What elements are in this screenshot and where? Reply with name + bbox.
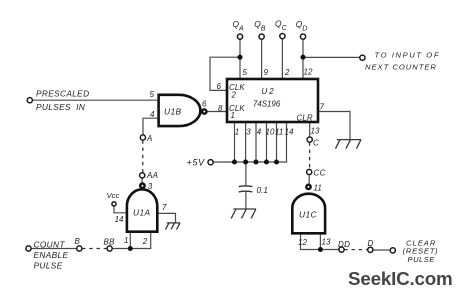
svg-text:SeekIC.com: SeekIC.com bbox=[348, 268, 452, 289]
svg-text:2: 2 bbox=[284, 68, 290, 77]
svg-text:D: D bbox=[302, 26, 307, 33]
svg-text:C: C bbox=[313, 139, 319, 148]
svg-text:DD: DD bbox=[338, 240, 350, 249]
svg-text:CLR: CLR bbox=[297, 113, 313, 122]
svg-text:AA: AA bbox=[146, 171, 158, 180]
svg-text:B: B bbox=[261, 26, 266, 33]
svg-text:U1A: U1A bbox=[133, 208, 151, 218]
svg-text:B: B bbox=[75, 237, 81, 246]
svg-text:2: 2 bbox=[142, 237, 148, 246]
svg-text:11: 11 bbox=[314, 183, 322, 192]
svg-text:COUNT: COUNT bbox=[34, 240, 66, 250]
svg-text:NEXT COUNTER: NEXT COUNTER bbox=[365, 63, 437, 72]
svg-text:PULSE: PULSE bbox=[34, 260, 63, 270]
svg-text:A: A bbox=[238, 26, 244, 33]
svg-text:BB: BB bbox=[104, 237, 116, 246]
svg-text:9: 9 bbox=[264, 68, 269, 77]
svg-text:1: 1 bbox=[124, 236, 128, 245]
svg-text:TO INPUT OF: TO INPUT OF bbox=[375, 51, 441, 60]
svg-text:PULSE: PULSE bbox=[408, 255, 436, 264]
svg-text:14: 14 bbox=[115, 215, 124, 224]
svg-text:D: D bbox=[368, 239, 374, 248]
svg-text:PULSES IN: PULSES IN bbox=[36, 102, 85, 112]
svg-text:3: 3 bbox=[148, 182, 153, 191]
svg-text:74S196: 74S196 bbox=[253, 99, 281, 108]
svg-text:14: 14 bbox=[285, 128, 294, 137]
svg-text:U2: U2 bbox=[262, 87, 276, 96]
svg-text:Vcc: Vcc bbox=[107, 191, 120, 200]
svg-text:4: 4 bbox=[150, 110, 155, 119]
svg-text:A: A bbox=[146, 134, 153, 143]
svg-text:13: 13 bbox=[311, 127, 320, 136]
svg-text:7: 7 bbox=[162, 203, 167, 212]
svg-text:1: 1 bbox=[235, 128, 239, 137]
svg-text:11: 11 bbox=[275, 128, 283, 137]
svg-text:U1C: U1C bbox=[299, 209, 318, 219]
svg-text:4: 4 bbox=[257, 128, 262, 137]
svg-text:7: 7 bbox=[320, 102, 325, 111]
svg-text:5: 5 bbox=[150, 90, 155, 99]
svg-text:U1B: U1B bbox=[164, 106, 182, 116]
svg-text:PRESCALED: PRESCALED bbox=[36, 88, 89, 98]
svg-text:10: 10 bbox=[266, 128, 275, 137]
svg-text:8: 8 bbox=[218, 104, 223, 113]
svg-text:6: 6 bbox=[217, 82, 222, 91]
svg-text:5: 5 bbox=[243, 68, 248, 77]
svg-text:1: 1 bbox=[231, 111, 236, 120]
svg-text:6: 6 bbox=[202, 99, 207, 108]
svg-text:+5V: +5V bbox=[187, 158, 206, 168]
svg-text:2: 2 bbox=[231, 91, 237, 100]
svg-text:13: 13 bbox=[322, 237, 331, 246]
svg-text:3: 3 bbox=[246, 128, 251, 137]
svg-text:12: 12 bbox=[298, 238, 307, 247]
svg-text:12: 12 bbox=[304, 68, 313, 77]
svg-text:CC: CC bbox=[314, 169, 326, 178]
svg-text:0.1: 0.1 bbox=[257, 186, 268, 195]
svg-text:ENABLE: ENABLE bbox=[34, 250, 69, 260]
